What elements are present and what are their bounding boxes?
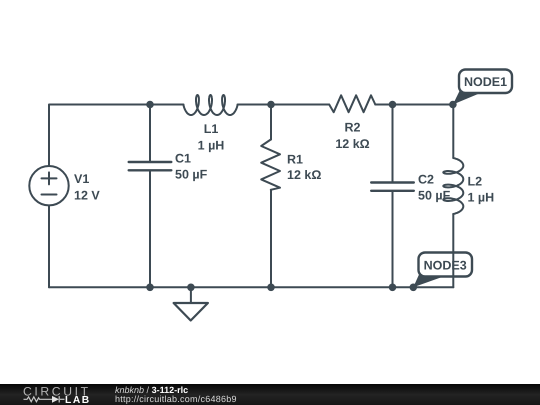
junction ground <box>187 284 195 292</box>
footer title text <box>115 386 188 395</box>
junction R1 top <box>267 101 275 109</box>
label R2 value <box>335 121 369 152</box>
wire C2 branch upper <box>392 105 394 183</box>
node label NODE3 <box>413 253 472 288</box>
CircuitLab logo <box>0 384 100 405</box>
wire left rail lower (V1 to bottom rail) <box>48 206 50 288</box>
node label NODE1 <box>453 70 512 105</box>
label L1 value <box>198 122 225 153</box>
wire top rail middle segment <box>238 104 330 106</box>
svg-text:R2: R2 <box>345 121 361 135</box>
capacitor C1 <box>129 162 172 170</box>
ground <box>174 287 208 320</box>
wire top rail right segment <box>375 104 453 106</box>
label V1 value <box>74 172 100 203</box>
inductor L2 <box>443 158 463 214</box>
wire right rail upper <box>452 105 454 159</box>
svg-text:50 µF: 50 µF <box>175 168 208 182</box>
wire right rail lower (drawn over NODE3 box) <box>452 214 454 287</box>
inductor L1 <box>184 95 238 115</box>
junction NODE1 anchor <box>449 101 457 109</box>
svg-text:L2: L2 <box>468 175 483 189</box>
resistor R2 <box>329 95 375 112</box>
footer bar <box>0 384 540 405</box>
svg-text:12 V: 12 V <box>74 189 100 203</box>
wire bottom rail <box>49 286 453 288</box>
junction C2 bottom <box>389 284 397 292</box>
svg-text:NODE3: NODE3 <box>424 259 467 273</box>
label L2 value <box>468 175 495 205</box>
label R1 value <box>287 153 321 183</box>
svg-text:50 µF: 50 µF <box>418 189 451 203</box>
wire R1 branch lower <box>270 190 272 287</box>
wire C1 branch upper <box>149 105 151 162</box>
junction NODE3 anchor <box>410 284 418 292</box>
svg-text:C1: C1 <box>175 152 191 166</box>
wire C2 branch lower <box>392 191 394 287</box>
svg-text:R1: R1 <box>287 153 303 167</box>
voltage source V1 <box>29 166 68 205</box>
resistor R1 <box>261 140 280 190</box>
wire R1 branch upper <box>270 105 272 140</box>
svg-text:V1: V1 <box>74 172 89 186</box>
junction C1 top <box>146 101 154 109</box>
label C1 value <box>175 152 208 182</box>
svg-text:12 kΩ: 12 kΩ <box>335 137 369 151</box>
junction C2 top <box>389 101 397 109</box>
svg-text:12 kΩ: 12 kΩ <box>287 168 321 182</box>
junction C1 bottom <box>146 284 154 292</box>
svg-text:1 µH: 1 µH <box>198 139 225 153</box>
wire top rail left segment <box>49 105 184 167</box>
svg-text:1 µH: 1 µH <box>468 191 495 205</box>
footer url text <box>115 395 237 404</box>
svg-text:NODE1: NODE1 <box>464 75 507 89</box>
capacitor C2 <box>371 183 414 191</box>
label C2 value <box>418 173 451 203</box>
svg-text:LAB: LAB <box>65 395 91 405</box>
junction R1 bottom <box>267 284 275 292</box>
wire C1 branch lower <box>149 171 151 287</box>
svg-text:C2: C2 <box>418 173 434 187</box>
svg-text:L1: L1 <box>204 122 219 136</box>
